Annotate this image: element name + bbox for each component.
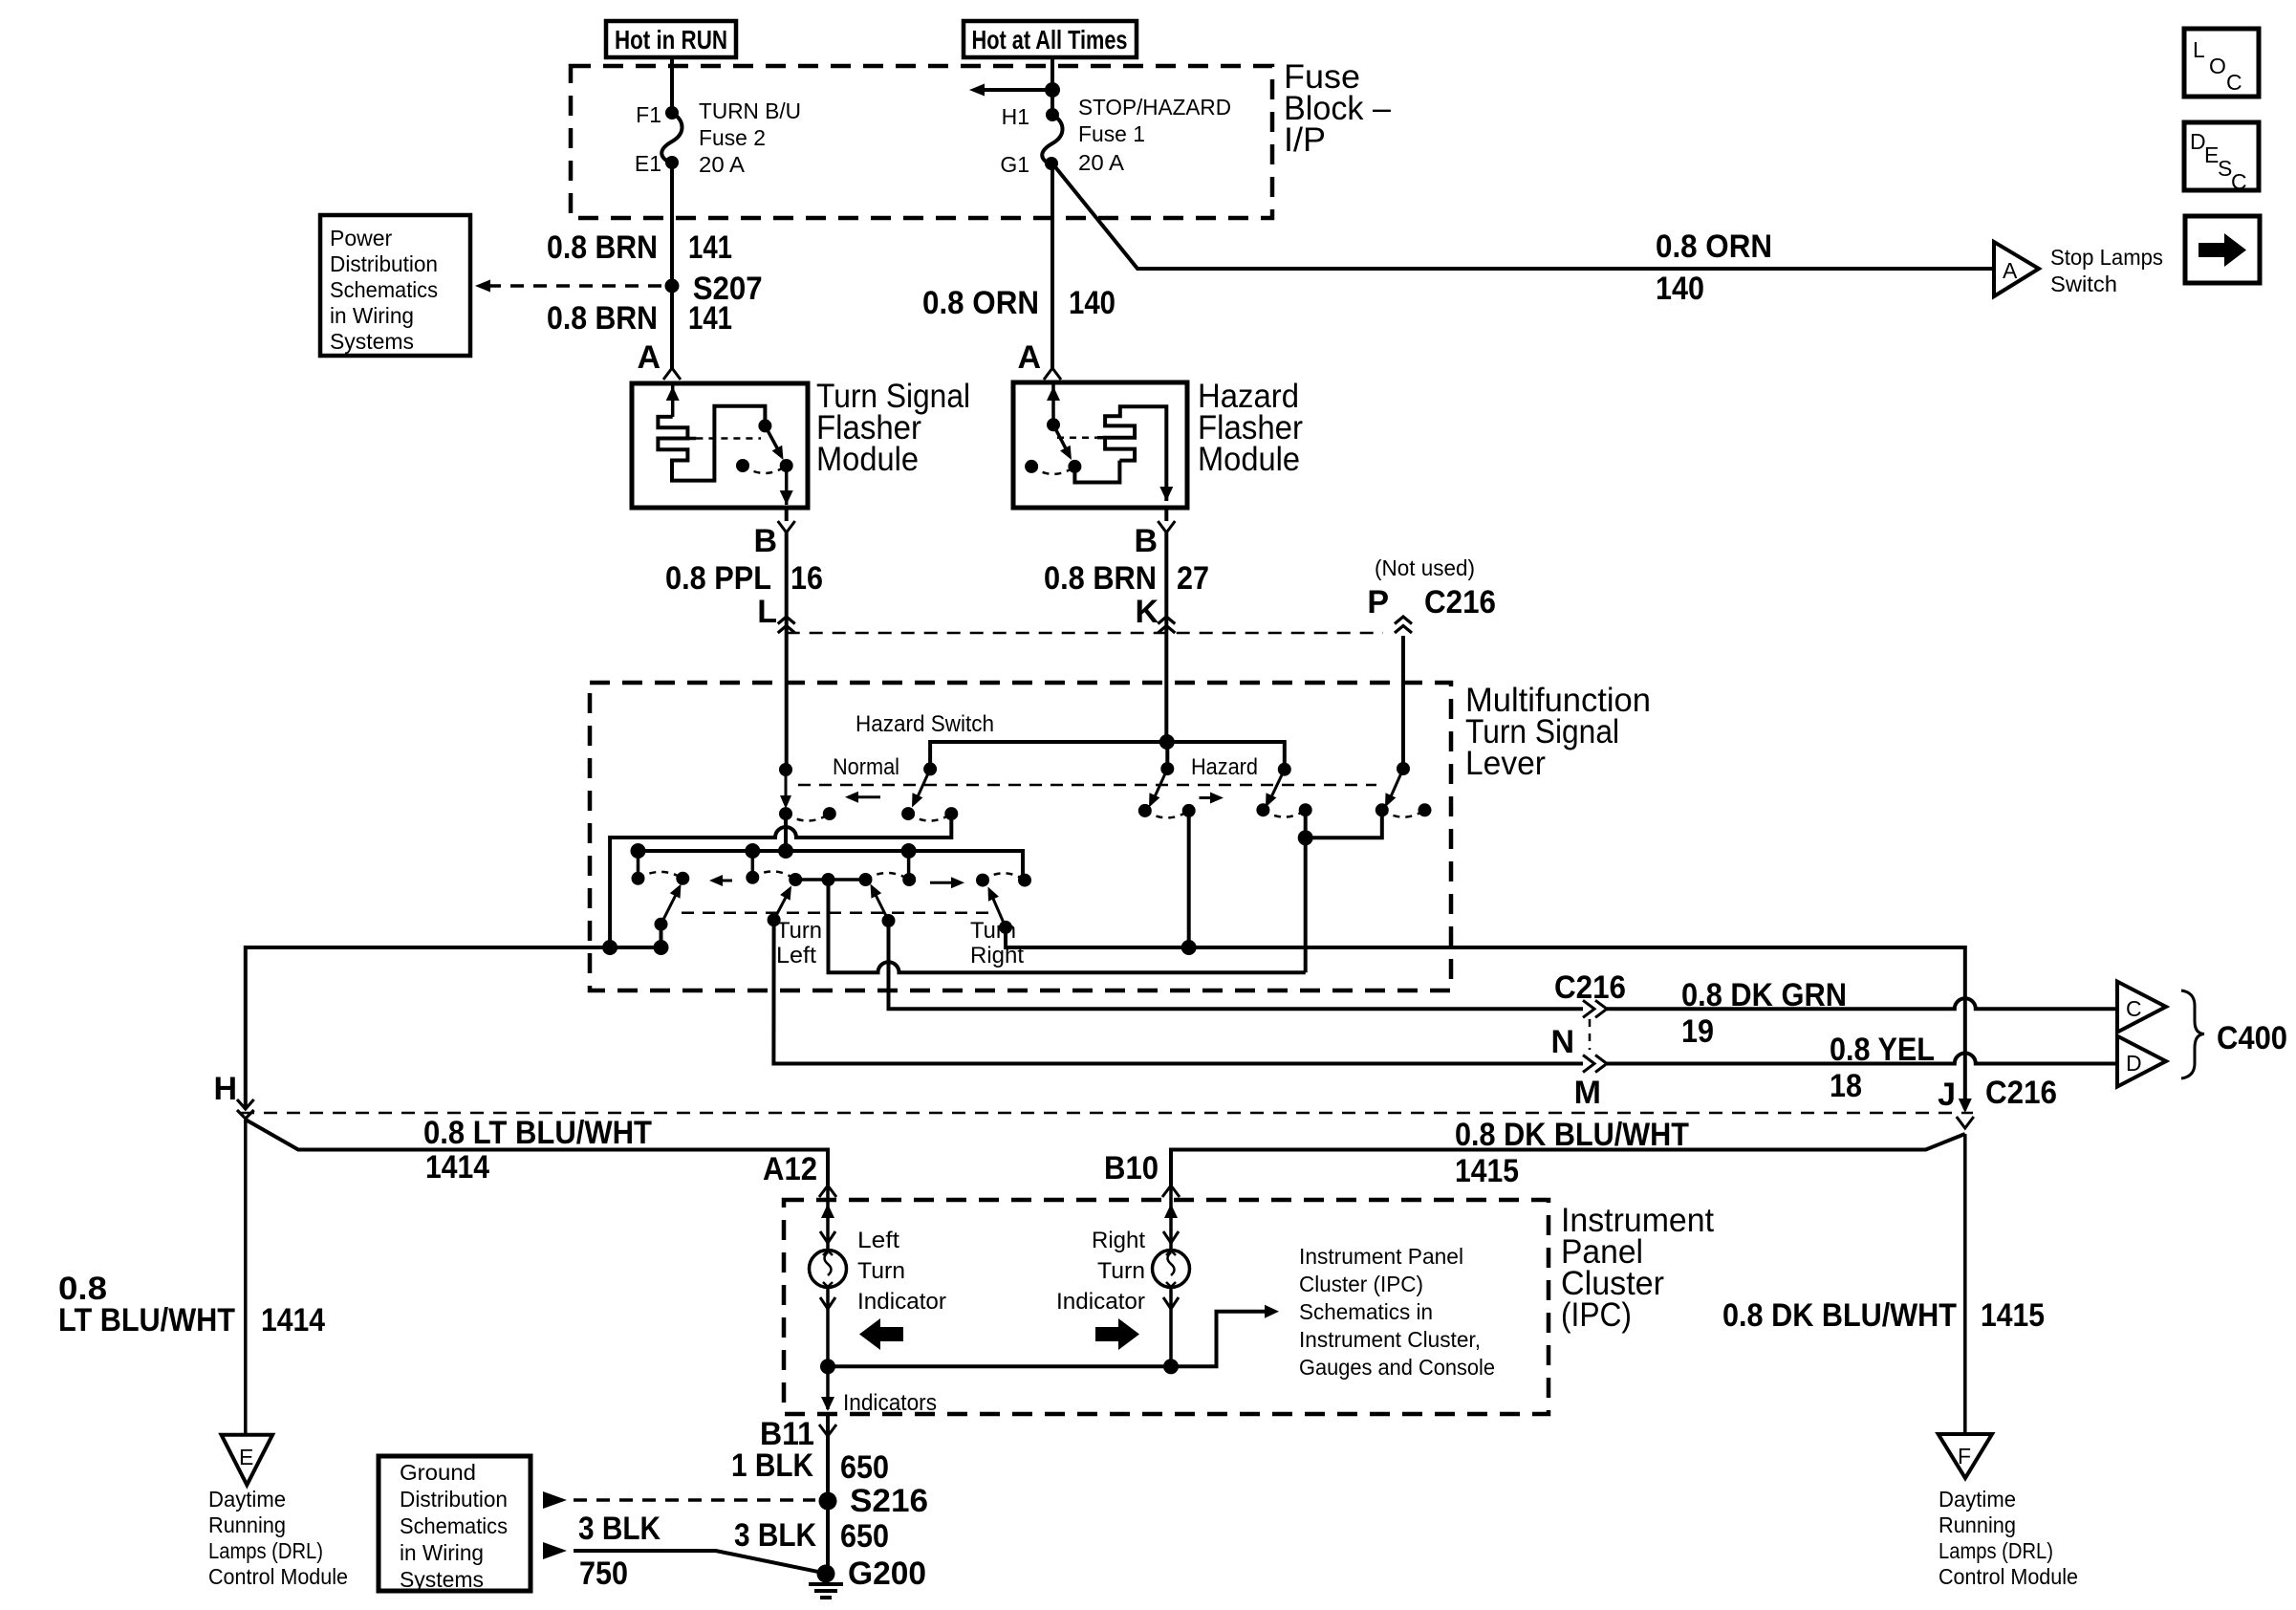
label 0.8 ORN stop lamps: [1656, 228, 1772, 265]
hazard flasher contact to meander wire: [1074, 461, 1119, 483]
arrow box: [2185, 216, 2260, 283]
contact row middle dot: [822, 873, 835, 886]
hazard-left arc dashed: [1145, 811, 1189, 818]
arrowhead to power distribution box: [475, 280, 490, 293]
junction dot K on top bar: [1159, 734, 1175, 750]
turn-D arm: [988, 887, 1007, 927]
exit wire junction dots: [602, 940, 668, 955]
P group contact dot: [1375, 803, 1389, 816]
svg-text:Lamps (DRL): Lamps (DRL): [208, 1538, 323, 1563]
svg-text:C: C: [2226, 70, 2242, 95]
svg-text:Ground: Ground: [400, 1460, 476, 1485]
svg-text:Lamps (DRL): Lamps (DRL): [1939, 1538, 2053, 1563]
svg-text:A: A: [637, 339, 661, 376]
label 3 BLK: [734, 1517, 816, 1554]
hazard normal-left arc dashed: [786, 814, 830, 820]
label Daytime Running Lamps DRL Control Module left: [208, 1487, 348, 1589]
hazard normal-left contact dot: [779, 807, 792, 820]
svg-text:Turn: Turn: [1097, 1258, 1145, 1284]
ground distribution box: [379, 1456, 531, 1591]
svg-text:G1: G1: [1000, 152, 1029, 177]
label F1: [636, 102, 661, 127]
hazard-left arm: [1149, 769, 1167, 807]
svg-text:O: O: [2209, 54, 2226, 78]
hazard normal-right arc dashed: [908, 814, 951, 820]
svg-text:Hazard: Hazard: [1191, 754, 1258, 780]
connector E triangle: [222, 1435, 273, 1486]
svg-text:K: K: [1135, 594, 1159, 630]
svg-text:18: 18: [1830, 1068, 1862, 1104]
long dashed connector line C216: [241, 1112, 1973, 1115]
svg-text:0.8 ORN: 0.8 ORN: [922, 285, 1039, 321]
svg-text:Daytime: Daytime: [208, 1487, 286, 1512]
fuse 1 element: [1042, 115, 1062, 164]
svg-text:Module: Module: [1198, 441, 1300, 478]
label 1415 run: [1455, 1153, 1519, 1189]
label C216 J: [1985, 1075, 2057, 1111]
ground G200 dot: [817, 1565, 835, 1583]
label J: [1938, 1077, 1956, 1113]
turn-D arc dashed: [983, 873, 1025, 880]
label E1: [635, 151, 661, 176]
label Hazard Flasher Module: [1198, 378, 1303, 478]
hazard-right arm: [1266, 770, 1285, 808]
turn-left arrow left: [709, 875, 732, 886]
wire L into hazard switch: [785, 633, 789, 770]
fuse 2 element: [661, 113, 682, 163]
svg-text:0.8 BRN: 0.8 BRN: [547, 229, 658, 266]
arrowhead 750 wire: [543, 1542, 567, 1559]
label box Hot at All Times: [964, 21, 1137, 57]
svg-text:E: E: [239, 1445, 253, 1469]
wire N to C with hop: [1607, 998, 2117, 1009]
label 140: [1069, 285, 1116, 321]
label 19: [1681, 1013, 1714, 1050]
hazard-left pivot dot: [1160, 762, 1174, 775]
svg-text:141: 141: [688, 300, 732, 337]
label Right Turn Indicator: [1056, 1228, 1145, 1315]
svg-text:Indicator: Indicator: [857, 1289, 946, 1315]
hazard normal-left arm down arrow: [780, 770, 791, 809]
svg-text:0.8 YEL: 0.8 YEL: [1830, 1032, 1935, 1068]
label Daytime Running Lamps DRL Control Module right: [1939, 1487, 2078, 1589]
svg-text:Schematics: Schematics: [330, 277, 438, 302]
hazard flasher B down arrow: [1159, 487, 1173, 501]
svg-text:Cluster (IPC): Cluster (IPC): [1299, 1272, 1423, 1296]
label P: [1367, 584, 1389, 620]
fuse block dashed box: [571, 66, 1272, 218]
label Hazard: [1191, 754, 1258, 780]
connector C triangle: [2117, 982, 2166, 1033]
wire L contact to bus: [784, 814, 788, 851]
svg-text:0.8 DK GRN: 0.8 DK GRN: [1681, 977, 1847, 1013]
hazard flasher A wire with up arrow: [1047, 382, 1060, 424]
wire right lamp down: [1169, 1287, 1173, 1366]
svg-text:F1: F1: [636, 102, 661, 127]
svg-text:0.8 LT BLU/WHT: 0.8 LT BLU/WHT: [423, 1115, 652, 1151]
right lamp entry chevron: [1163, 1231, 1179, 1243]
turn switch bus: [639, 851, 1024, 881]
turn-B arm: [774, 886, 791, 921]
label 0.8 PPL: [665, 560, 771, 597]
turn-right pivot dot: [882, 914, 896, 927]
wire B11 to S216: [826, 1436, 830, 1501]
svg-text:B: B: [1134, 523, 1158, 559]
wire contact row down right with hop: [829, 880, 1306, 972]
svg-text:750: 750: [579, 1556, 628, 1592]
bus stub A: [637, 851, 640, 879]
svg-text:B: B: [753, 523, 777, 559]
svg-text:Normal: Normal: [833, 754, 899, 780]
label B10: [1104, 1150, 1159, 1186]
turn flasher mechanical link dashed: [696, 437, 761, 440]
turn-D NC contact dot: [976, 874, 989, 887]
wire M to D with hop: [1607, 1054, 2117, 1064]
svg-text:19: 19: [1681, 1013, 1714, 1050]
turn flasher heater meander: [658, 406, 765, 481]
label S216: [850, 1483, 928, 1519]
hazard normal-left NC dot: [823, 807, 836, 820]
turn flasher switch arm with arrowhead: [765, 425, 783, 460]
turn flasher NC contact dot: [736, 459, 749, 472]
turn-B arc dashed: [752, 871, 795, 880]
junction dot left lamp: [820, 1359, 835, 1374]
C216 connector dashes vertical: [1589, 1019, 1592, 1050]
svg-text:Schematics in: Schematics in: [1299, 1299, 1433, 1324]
svg-text:Running: Running: [1939, 1512, 2016, 1537]
component name Fuse Block - I/P: [1284, 58, 1392, 159]
junction dot hazard branch: [1298, 830, 1313, 845]
wire S207 down to turn flasher A: [670, 286, 674, 369]
wire J down to DRL F: [1963, 1134, 1967, 1434]
svg-text:(Not used): (Not used): [1375, 555, 1475, 580]
turn flasher B wire with down arrow: [780, 466, 793, 505]
hazard flasher mechanical link dashed: [1057, 436, 1097, 439]
label 1 BLK: [731, 1447, 813, 1484]
fuse G1 terminal dot: [1045, 157, 1058, 170]
wire turn flasher B out: [785, 508, 789, 521]
svg-text:Indicator: Indicator: [1056, 1289, 1145, 1315]
svg-text:Control Module: Control Module: [1939, 1564, 2078, 1589]
label 0.8 LT BLU/WHT 1414 left: [58, 1271, 325, 1338]
svg-text:D: D: [2126, 1051, 2142, 1076]
hazard normal-right NC dot: [944, 807, 958, 820]
connector M double chevron: [1583, 1055, 1607, 1073]
svg-text:F: F: [1958, 1444, 1971, 1469]
hazard-left NC dot: [1182, 804, 1196, 817]
wire turn-D pivot to right bus: [1006, 927, 1965, 1109]
junction dot hazard NC on feed: [1181, 940, 1197, 955]
wire S216 to G200: [826, 1501, 830, 1574]
svg-text:S216: S216: [850, 1483, 928, 1519]
svg-text:Control Module: Control Module: [208, 1564, 348, 1589]
label 0.8 YEL: [1830, 1032, 1935, 1068]
arrowhead ground distribution dashed: [543, 1491, 567, 1509]
turn flasher switch pivot dot: [758, 419, 771, 432]
hazard normal-right arm: [912, 769, 930, 807]
P group NC dot: [1419, 803, 1432, 816]
wire turn-left pivot to exit: [660, 925, 663, 947]
label 140 stop lamps: [1656, 271, 1704, 307]
label Hazard Switch: [856, 711, 994, 737]
svg-text:B10: B10: [1104, 1150, 1159, 1186]
label Instrument Panel Cluster IPC: [1561, 1202, 1714, 1334]
svg-text:L: L: [2193, 37, 2205, 62]
junction dot on hazard feed: [1045, 82, 1060, 98]
turn-right arc dashed: [866, 873, 910, 880]
svg-text:Instrument Panel: Instrument Panel: [1299, 1244, 1463, 1269]
wire normal-right NC down left with hop: [610, 814, 951, 947]
wire G1 down to hazard flasher A: [1051, 163, 1054, 369]
wire B down to C216 K: [1164, 533, 1168, 633]
svg-text:E1: E1: [635, 151, 661, 176]
label TURN B/U Fuse 2 20 A: [699, 98, 801, 177]
svg-text:1 BLK: 1 BLK: [731, 1447, 813, 1484]
svg-text:Turn: Turn: [776, 918, 822, 944]
label 27: [1177, 560, 1209, 597]
svg-text:C: C: [2126, 996, 2142, 1021]
label Turn Right: [970, 918, 1024, 968]
label Indicators: [843, 1390, 937, 1416]
label Stop Lamps Switch: [2050, 245, 2163, 296]
label Power Distribution Schematics in Wiring Systems: [330, 226, 438, 354]
hazard flasher contact dashed arc: [1031, 467, 1074, 474]
label A right: [1017, 339, 1041, 376]
svg-text:3 BLK: 3 BLK: [578, 1511, 661, 1547]
right lamp exit chevron: [1163, 1297, 1179, 1309]
svg-text:0.8 DK BLU/WHT: 0.8 DK BLU/WHT: [1455, 1117, 1689, 1153]
indicators bus wire: [828, 1312, 1271, 1367]
hazard-right pivot dot: [1278, 763, 1291, 776]
contact row right dot: [859, 873, 873, 886]
wire indicators down arrow: [821, 1397, 834, 1411]
svg-text:M: M: [1574, 1075, 1601, 1111]
svg-text:Left: Left: [776, 943, 816, 968]
hazard flasher switch pivot dot: [1047, 418, 1060, 431]
label G1: [1000, 152, 1029, 177]
fuse H1 terminal dot: [1046, 108, 1059, 121]
wire Hot at All Times to H1: [1051, 57, 1054, 115]
label 16: [791, 560, 823, 597]
splice S216 dot: [819, 1492, 837, 1511]
label L: [757, 594, 777, 630]
brace C400: [2181, 990, 2287, 1078]
left turn black arrow: [859, 1318, 903, 1350]
label 0.8 DK BLU/WHT run: [1455, 1117, 1689, 1153]
label G200: [848, 1556, 926, 1592]
hazard normal-left pivot dot: [779, 763, 792, 776]
svg-text:1414: 1414: [261, 1302, 325, 1338]
label 650 upper: [840, 1449, 889, 1486]
fuse E1 terminal dot: [665, 156, 679, 169]
power distribution schematics box: [320, 215, 470, 356]
hazard-right contact dot: [1256, 803, 1269, 816]
wire hazard flasher B out: [1164, 508, 1168, 521]
ground symbol: [809, 1584, 843, 1598]
turn flasher contact dashed arc: [743, 466, 787, 473]
turn-right bus contact dot: [902, 873, 916, 886]
wire hazard NC down to right-turn feed: [1187, 811, 1191, 947]
svg-text:A: A: [2003, 258, 2018, 283]
svg-text:Stop Lamps: Stop Lamps: [2050, 245, 2163, 270]
svg-text:0.8 PPL: 0.8 PPL: [665, 560, 771, 597]
wire turn-B pivot down to M wire: [773, 920, 1583, 1063]
svg-text:1415: 1415: [1455, 1153, 1519, 1189]
hazard flasher heater meander: [1097, 406, 1166, 501]
svg-text:G200: G200: [848, 1556, 926, 1592]
wire H diagonal to 1414: [246, 1120, 828, 1186]
turn-B pivot dot: [768, 913, 781, 926]
label Turn Left: [776, 918, 822, 968]
svg-text:Instrument Cluster,: Instrument Cluster,: [1299, 1327, 1481, 1352]
connector A chevron hazard flasher: [1044, 368, 1061, 380]
wire to power distribution arrow: [984, 88, 1052, 92]
fuse F1 terminal dot: [665, 106, 679, 120]
label Multifunction Turn Signal Lever: [1465, 682, 1651, 782]
connector D triangle: [2117, 1036, 2166, 1087]
hazard flasher module box: [1013, 382, 1187, 508]
label C216 upper: [1424, 584, 1496, 620]
svg-text:Systems: Systems: [400, 1567, 484, 1592]
P group arc dashed: [1382, 810, 1425, 816]
connector B11 chevron: [819, 1425, 836, 1436]
turn-left moving contact dot: [676, 872, 689, 885]
hazard-right second contact dot: [1299, 803, 1312, 816]
bus stub C: [907, 851, 911, 878]
wire K into hazard switch: [1166, 633, 1167, 769]
svg-text:C216: C216: [1424, 584, 1496, 620]
left lamp entry chevron: [820, 1231, 835, 1243]
svg-text:0.8 ORN: 0.8 ORN: [1656, 228, 1772, 265]
svg-text:Switch: Switch: [2050, 272, 2117, 296]
svg-text:TURN B/U: TURN B/U: [699, 98, 801, 123]
connector N double chevron: [1583, 1000, 1607, 1017]
connector B chevron hazard flasher: [1158, 521, 1175, 533]
svg-text:A: A: [1017, 339, 1041, 376]
svg-text:140: 140: [1656, 271, 1704, 307]
label B turn flasher: [753, 523, 777, 559]
turn-B moving contact dot: [789, 873, 802, 886]
svg-text:STOP/HAZARD: STOP/HAZARD: [1078, 95, 1231, 120]
connector F triangle: [1939, 1434, 1992, 1478]
svg-text:J: J: [1938, 1077, 1956, 1113]
hazard flasher switch arm with arrowhead: [1053, 424, 1072, 460]
hazard switch mechanical link dashed: [798, 784, 1376, 787]
svg-text:H: H: [213, 1071, 237, 1107]
label C216 N: [1554, 969, 1626, 1006]
wire B11 out of IPC: [826, 1414, 830, 1436]
turn-left NC contact dot: [632, 872, 645, 885]
wire hazard branch to P contact: [1306, 810, 1382, 838]
label 18: [1830, 1068, 1862, 1104]
connector J chevron below: [1957, 1117, 1974, 1128]
hazard normal-right pivot dot: [923, 762, 937, 775]
svg-text:Left: Left: [857, 1228, 899, 1253]
wire 750 to G200: [574, 1551, 818, 1572]
contact row wire: [795, 878, 865, 881]
label 1414 run: [425, 1149, 489, 1186]
svg-text:Right: Right: [970, 943, 1024, 968]
label 0.8 DK GRN: [1681, 977, 1847, 1013]
svg-text:C216: C216: [1554, 969, 1626, 1006]
svg-text:1415: 1415: [1981, 1297, 2045, 1334]
svg-text:0.8 BRN: 0.8 BRN: [547, 300, 658, 337]
LOC box: [2184, 29, 2259, 97]
wire H down to DRL E: [244, 1120, 248, 1434]
connector P double chevron C216: [1395, 617, 1412, 633]
svg-text:Hazard Switch: Hazard Switch: [856, 711, 994, 737]
left lamp exit chevron: [820, 1297, 835, 1309]
svg-text:16: 16: [791, 560, 823, 597]
P group pivot dot: [1397, 762, 1410, 775]
turn switch mechanical link dashed: [682, 911, 992, 914]
hazard normal-right contact dot: [901, 807, 915, 820]
wire P connector down to lever: [1401, 636, 1405, 769]
label IPC schematics note: [1299, 1244, 1495, 1380]
turn-left arc dashed: [639, 872, 683, 879]
connector A12 chevron: [819, 1186, 836, 1197]
multifunction turn signal lever dashed box: [590, 683, 1451, 990]
svg-text:C: C: [2231, 169, 2247, 194]
svg-text:A12: A12: [763, 1151, 817, 1187]
dashed wire S216 to ground distribution: [574, 1498, 815, 1502]
arrowhead to IPC schematics note: [1265, 1305, 1279, 1318]
connector L double chevron C216: [778, 617, 795, 633]
label A12: [763, 1151, 817, 1187]
label 0.8 ORN: [922, 285, 1039, 321]
svg-text:20 A: 20 A: [699, 152, 746, 177]
turn-D pivot dot: [999, 921, 1012, 934]
svg-text:Module: Module: [816, 441, 919, 478]
label Normal: [833, 754, 899, 780]
svg-text:140: 140: [1069, 285, 1116, 321]
svg-text:Hot in RUN: Hot in RUN: [615, 25, 727, 54]
dashed connector line C216 upper: [787, 632, 1383, 635]
svg-text:C216: C216: [1985, 1075, 2057, 1111]
hazard switch top bar: [930, 742, 1285, 770]
hazard-left contact dot: [1138, 804, 1152, 817]
hazard-right arc dashed: [1263, 810, 1305, 816]
instrument panel cluster dashed box: [784, 1200, 1549, 1414]
svg-text:Distribution: Distribution: [330, 251, 438, 276]
label B hazard flasher: [1134, 523, 1158, 559]
turn-left pivot dot: [655, 918, 668, 931]
hazard arrow right: [1200, 793, 1224, 804]
svg-text:in Wiring: in Wiring: [330, 303, 414, 328]
label 3 BLK 750: [578, 1511, 661, 1592]
splice S207 dot: [665, 279, 680, 294]
svg-text:27: 27: [1177, 560, 1209, 597]
svg-text:P: P: [1367, 584, 1389, 620]
label box Hot in RUN: [606, 21, 736, 57]
wire hazard-right contact down: [1304, 810, 1308, 972]
svg-text:Fuse 1: Fuse 1: [1078, 121, 1145, 146]
svg-text:Hot at All Times: Hot at All Times: [972, 25, 1128, 54]
svg-text:Lever: Lever: [1465, 745, 1546, 782]
label B11: [760, 1416, 814, 1452]
label N: [1550, 1024, 1574, 1060]
wire left exit to H: [246, 947, 663, 1109]
wire left lamp down to indicators bus: [826, 1287, 830, 1409]
turn signal flasher module box: [632, 383, 808, 508]
label 0.8 LT BLU/WHT: [423, 1115, 652, 1151]
turn-D bus contact dot: [1018, 874, 1031, 887]
label 650 lower: [840, 1518, 889, 1555]
turn flasher A wire with up arrow: [666, 383, 680, 417]
svg-text:Systems: Systems: [330, 329, 414, 354]
junction dot right lamp: [1163, 1359, 1179, 1374]
label Not used: [1375, 555, 1475, 580]
